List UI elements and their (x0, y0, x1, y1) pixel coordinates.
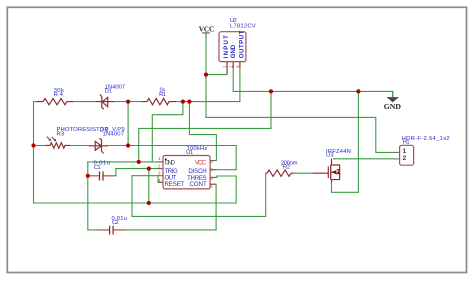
svg-text:D1: D1 (105, 89, 112, 95)
svg-text:1N4007: 1N4007 (103, 132, 125, 138)
svg-text:1: 1 (222, 65, 227, 68)
svg-text:RESET: RESET (165, 181, 185, 188)
svg-text:GND: GND (384, 103, 401, 111)
svg-text:GND: GND (230, 44, 237, 58)
svg-text:4: 4 (158, 178, 161, 183)
svg-text:C1: C1 (94, 165, 101, 171)
svg-text:L7812CV: L7812CV (230, 23, 256, 29)
svg-text:2: 2 (158, 163, 161, 168)
svg-text:INPUT: INPUT (223, 35, 230, 58)
svg-text:R2: R2 (283, 165, 290, 171)
svg-text:3: 3 (158, 171, 161, 176)
svg-text:3: 3 (235, 65, 240, 68)
svg-text:OUTPUT: OUTPUT (239, 30, 246, 58)
svg-text:6: 6 (210, 176, 213, 181)
svg-text:2: 2 (403, 155, 407, 162)
svg-text:CONT: CONT (190, 181, 207, 188)
svg-text:2: 2 (228, 65, 233, 68)
svg-text:7: 7 (210, 168, 213, 173)
svg-text:VCC: VCC (195, 159, 207, 166)
svg-text:C2: C2 (112, 220, 119, 226)
svg-text:5: 5 (210, 183, 213, 188)
svg-text:H1: H1 (403, 139, 410, 145)
svg-text:R1: R1 (159, 92, 166, 98)
svg-text:GND: GND (165, 159, 176, 166)
svg-text:1: 1 (158, 156, 161, 161)
svg-text:U3: U3 (326, 153, 334, 159)
svg-text:8: 8 (210, 159, 213, 164)
svg-text:R3: R3 (57, 132, 65, 138)
svg-text:U1: U1 (186, 150, 193, 156)
